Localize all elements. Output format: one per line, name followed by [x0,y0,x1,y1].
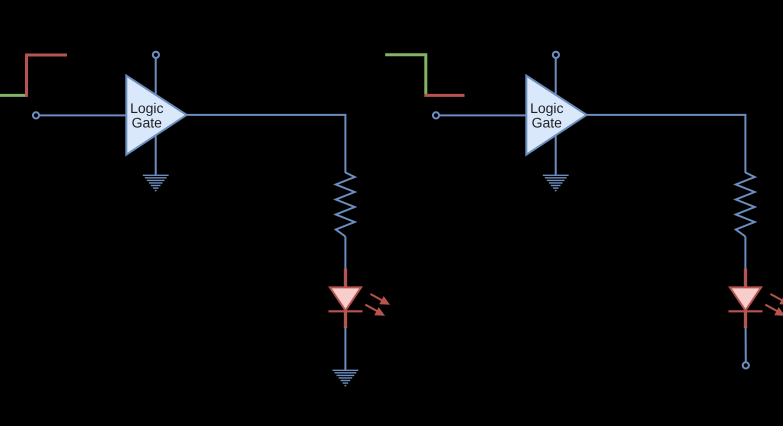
ground: under gate U1 [143,175,169,190]
wire: U1 power pin (vertical through gate) [155,58,157,175]
svg-text:Gate: Gate [532,115,563,131]
svg-text:Gate: Gate [132,115,163,131]
resistor R1 [336,173,355,237]
ground: under gate U2 [543,175,569,190]
wire: left input waveform low level (green) [0,94,27,97]
resistor R2 [736,173,755,237]
node: left input terminal [33,112,39,118]
wire: right input waveform low level (red) [424,94,464,97]
node: right power terminal [553,52,559,58]
LED D2 [729,269,783,329]
op-amp U2 "Logic Gate" buffer [526,76,586,155]
wire: U1 output to resistor R1 [187,115,346,173]
wire: D1 cathode to ground [344,328,346,371]
ground: below LED D1 [333,370,359,385]
wire: R2 to LED D2 [744,237,746,270]
node: right output terminal [743,362,749,368]
LED D1 [329,269,391,329]
node: right input terminal [433,112,439,118]
wire: U2 power pin (vertical through gate) [555,58,557,175]
wire: input terminal to gate U2 [439,114,526,116]
wire: U2 output to resistor R2 [587,115,746,173]
op-amp U1 "Logic Gate" buffer [126,76,186,155]
wire: D2 cathode to output terminal [745,328,747,363]
wire: input terminal to gate U1 [39,114,126,116]
wire: right input waveform high level and falling edge (green) [385,55,426,94]
wire: left input waveform rising edge and high level (red) [27,55,68,97]
wire: R1 to LED D1 [344,237,346,270]
node: left power terminal [153,52,159,58]
